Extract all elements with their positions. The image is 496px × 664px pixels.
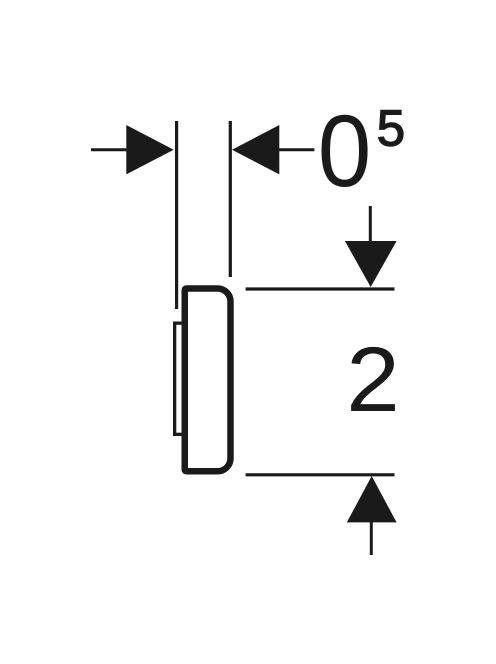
top dimension line: [246, 287, 395, 290]
plate profile: [185, 289, 231, 472]
mounting bracket: [175, 323, 191, 434]
bottom dimension arrow: [347, 476, 397, 555]
svg-text:0: 0: [318, 95, 372, 209]
left dimension arrow: [91, 125, 174, 174]
bottom dimension line: [246, 473, 395, 476]
svg-text:5: 5: [377, 100, 405, 157]
svg-text:2: 2: [346, 328, 400, 431]
top dimension arrow: [345, 206, 397, 287]
left extension line: [175, 121, 178, 309]
right extension line: [229, 121, 232, 277]
right dimension arrow: [232, 125, 314, 174]
